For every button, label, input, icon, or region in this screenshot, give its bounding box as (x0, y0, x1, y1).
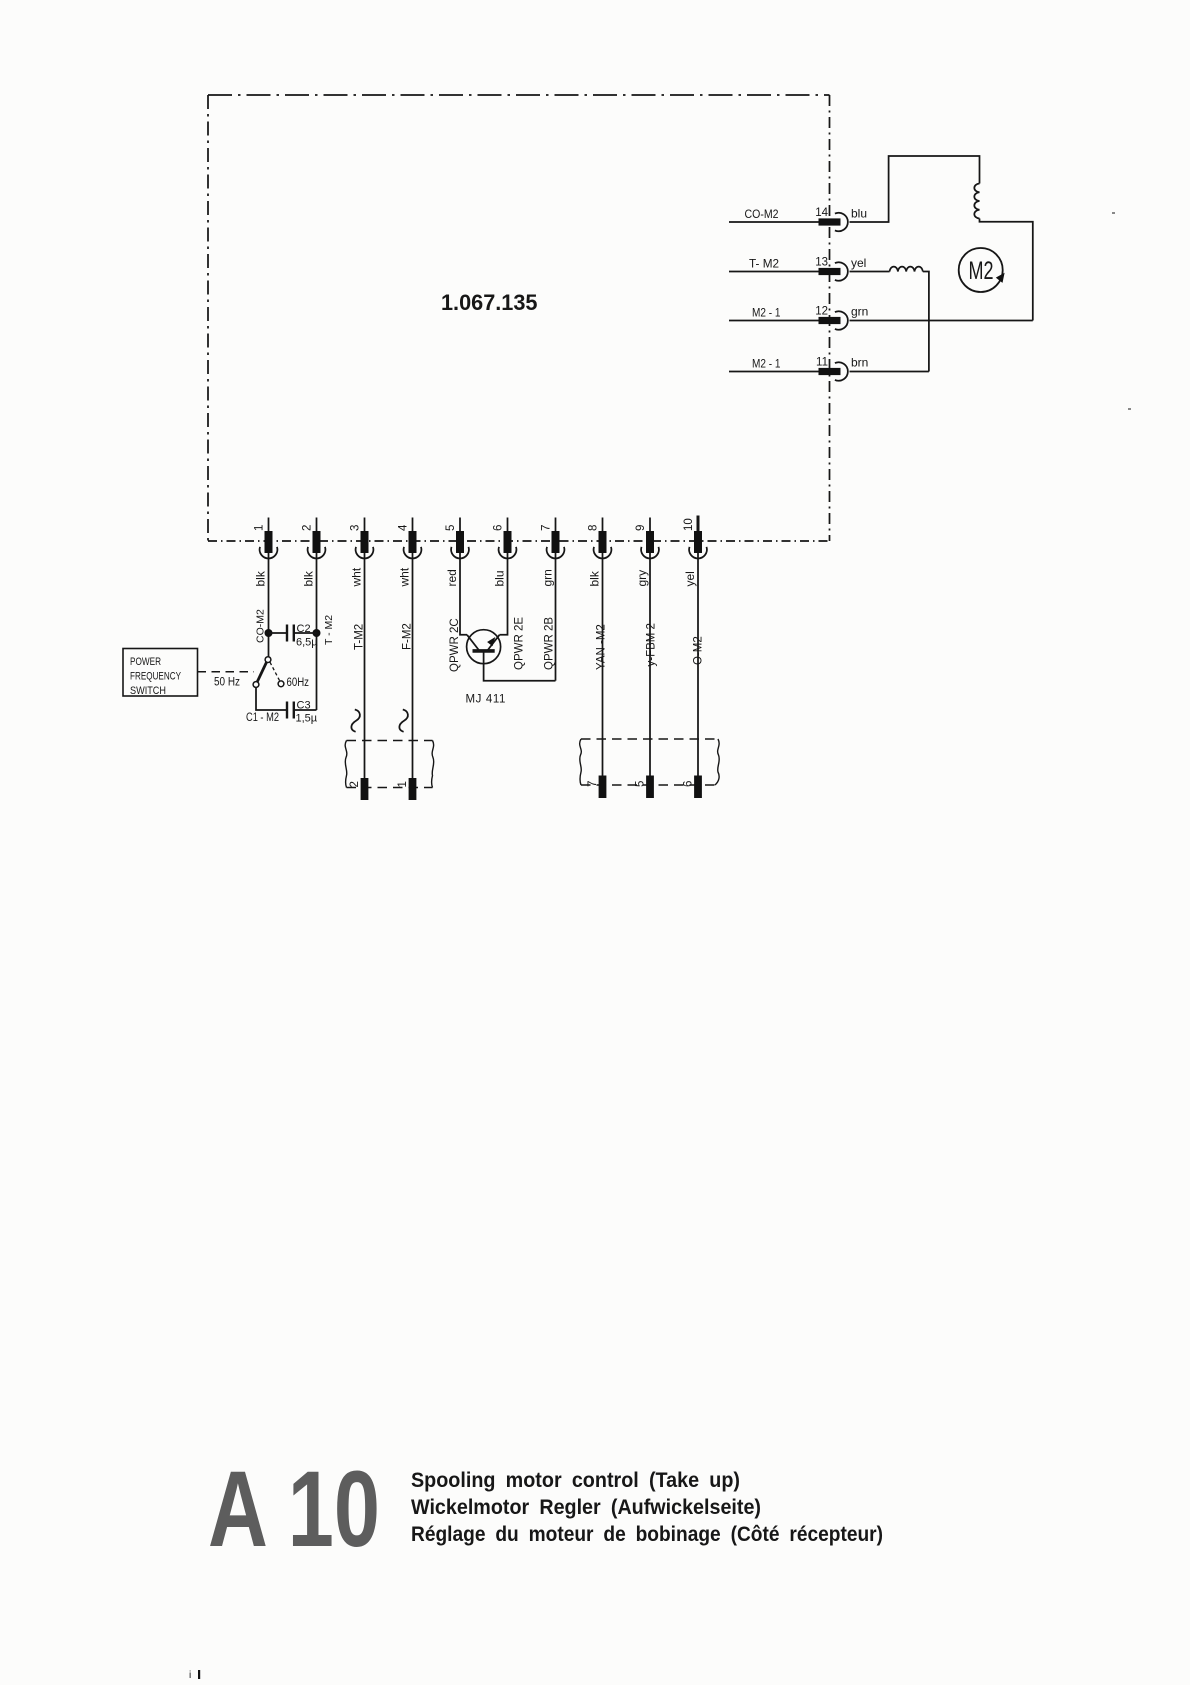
wire pin3 down to connector P1 pin2 (364, 553, 366, 778)
wire pin5 down to transistor Q1 collector (460, 553, 467, 635)
switch S1 lever (50Hz position) (257, 662, 266, 682)
wire T-M2 to pin 13 (729, 271, 820, 273)
scan speck right (1128, 408, 1131, 410)
svg-text:CO-M2: CO-M2 (255, 609, 267, 643)
pin 1 wire stub (268, 518, 270, 532)
svg-text:MJ 411: MJ 411 (466, 694, 506, 706)
svg-text:4: 4 (398, 524, 410, 531)
wire blu from pin 14 to motor winding L1 (850, 156, 980, 222)
wire S1 to C3 (256, 687, 287, 710)
svg-text:C1 - M2: C1 - M2 (246, 712, 279, 724)
svg-text:C2: C2 (297, 623, 311, 635)
connector J2 pin 6 group (493, 518, 526, 671)
svg-text:blk: blk (302, 570, 316, 586)
pin 12 socket hook (835, 311, 848, 329)
pin 3 wire stub (364, 518, 366, 532)
pin 5 contact bar (456, 531, 464, 553)
pin 13 contact bar (819, 268, 841, 275)
pin 1 contact bar (265, 531, 273, 553)
scan speck top right (1112, 212, 1115, 214)
svg-text:CO-M2: CO-M2 (745, 207, 779, 221)
svg-text:brn: brn (851, 356, 868, 370)
transistor Q1 base bar (473, 649, 495, 653)
connector J2 pin 8 group (588, 518, 612, 671)
connector P1 pin 1 bar (409, 778, 417, 800)
connector J2 pin 4 group (398, 518, 422, 651)
connector J1 pin 11 group (729, 356, 868, 381)
svg-text:1.067.135: 1.067.135 (441, 290, 538, 315)
svg-text:7: 7 (587, 781, 599, 787)
transistor Q1 base lead (484, 651, 556, 681)
switch S1 common contact (265, 657, 271, 663)
wire M2-1 to pin 12 (729, 320, 820, 322)
connector P1 torn right edge (432, 741, 434, 788)
svg-text:Wickelmotor Regler (Aufwickels: Wickelmotor Regler (Aufwickelseite) (411, 1496, 761, 1519)
break squiggle on wire 4 (399, 710, 408, 732)
pin 10 wire stub (697, 516, 700, 532)
svg-text:yel: yel (683, 571, 697, 586)
svg-text:50 Hz: 50 Hz (214, 677, 240, 689)
svg-text:grn: grn (541, 569, 555, 586)
svg-text:QPWR 2B: QPWR 2B (544, 617, 556, 670)
svg-text:yel: yel (851, 256, 866, 270)
svg-text:2: 2 (349, 781, 361, 787)
svg-text:11: 11 (816, 357, 828, 369)
wire pin6 down to transistor Q1 emitter (500, 553, 508, 635)
svg-text:14: 14 (815, 207, 828, 219)
svg-text:A 10: A 10 (208, 1448, 380, 1569)
capacitor C2 wire left (269, 632, 288, 634)
transistor Q1 collector arm (467, 635, 479, 650)
pin 10 socket hook (689, 547, 707, 559)
svg-text:gry: gry (635, 570, 649, 587)
connector J1 pin 14 group (729, 207, 867, 232)
transistor Q1 emitter arrow (487, 637, 495, 646)
wire brn to pin 11 (850, 371, 929, 373)
svg-text:3: 3 (350, 525, 362, 531)
module A10 board outline left edge (207, 95, 209, 541)
svg-text:12: 12 (815, 306, 828, 318)
svg-text:M2: M2 (969, 257, 994, 285)
pin 2 contact bar (313, 531, 321, 553)
svg-text:6: 6 (493, 525, 505, 531)
connector P1 dashed outline top (347, 740, 433, 742)
connector J2 pin 10 group (683, 516, 707, 666)
svg-text:2: 2 (302, 525, 314, 531)
capacitor C2 plates (286, 625, 288, 642)
svg-text:1: 1 (254, 525, 266, 531)
switch S1 50Hz contact (253, 682, 259, 688)
power frequency switch box (123, 649, 198, 697)
svg-text:8: 8 (588, 525, 600, 531)
svg-text:9: 9 (635, 525, 647, 531)
pin 8 wire stub (602, 518, 604, 532)
connector P2 dashed outline bottom (581, 784, 718, 786)
pin 3 contact bar (361, 531, 369, 553)
wire pin2 down to C3 (316, 553, 318, 710)
svg-text:QPWR 2E: QPWR 2E (514, 617, 526, 670)
svg-text:1,5µ: 1,5µ (296, 713, 318, 725)
wire pin10 down to connector P2 pin6 (697, 553, 699, 776)
pin 11 contact bar (819, 368, 841, 375)
svg-text:SWITCH: SWITCH (130, 685, 166, 697)
capacitor C3 wire right (294, 709, 317, 711)
svg-text:T- M2: T- M2 (749, 257, 779, 271)
svg-text:1: 1 (397, 781, 409, 787)
svg-text:red: red (445, 569, 459, 586)
capacitor C2 wire right (294, 632, 317, 634)
pin 9 socket hook (641, 547, 659, 559)
connector P2 pin 7 bar (599, 776, 607, 799)
svg-text:5: 5 (445, 525, 457, 531)
pin 4 socket hook (404, 547, 422, 559)
svg-text:M2 - 1: M2 - 1 (752, 306, 781, 320)
switch S1 alternate position dashed (270, 662, 280, 680)
svg-text:grn: grn (851, 305, 868, 319)
svg-text:7: 7 (541, 525, 553, 531)
pin 8 contact bar (599, 531, 607, 553)
module A10 board outline bottom edge (208, 540, 830, 542)
pin 5 wire stub (459, 518, 461, 532)
svg-text:POWER: POWER (130, 656, 161, 668)
pin 6 wire stub (507, 518, 509, 532)
pin 2 wire stub (316, 518, 318, 532)
transistor Q1 emitter arm (488, 635, 500, 650)
wire grn from motor frame to pin 12 (850, 320, 1033, 322)
pin 6 socket hook (499, 547, 517, 559)
pin 13 socket hook (835, 262, 848, 280)
dashed control link from switch box to S1 (198, 671, 255, 673)
pin 8 socket hook (594, 547, 612, 559)
svg-text:13: 13 (815, 257, 828, 269)
pin 4 contact bar (409, 531, 417, 553)
connector J2 pin 1 group (254, 518, 278, 587)
pin 7 contact bar (552, 531, 560, 553)
connector P2 torn left edge (580, 739, 582, 785)
node T-M2 junction dot (313, 629, 321, 637)
pin 14 contact bar (819, 218, 841, 225)
pin 6 contact bar (504, 531, 512, 553)
module A10 board outline top edge (208, 94, 830, 96)
connector J1 pin 12 group (729, 305, 868, 330)
wire L1 to motor frame right side (980, 219, 1033, 321)
pin 4 wire stub (412, 518, 414, 532)
connector P2 torn right edge (715, 739, 719, 785)
svg-text:blk: blk (588, 570, 602, 586)
wire pin1 down to switch S1 (268, 553, 270, 657)
svg-text:FREQUENCY: FREQUENCY (130, 671, 181, 683)
wire yel from pin 13 to inductor L2 (850, 271, 890, 273)
pin 14 socket hook (835, 213, 848, 231)
break squiggle on wire 3 (351, 710, 360, 732)
connector J2 pin 5 group (445, 518, 469, 673)
pin 9 contact bar (646, 531, 654, 553)
svg-text:T - M2: T - M2 (323, 615, 335, 645)
pin 7 wire stub (555, 518, 557, 532)
svg-text:i: i (189, 1670, 191, 1681)
wire L2 down to brn node (923, 272, 929, 372)
wire M2-1 to pin 11 (729, 371, 820, 373)
connector J2 pin 2 group (302, 518, 326, 587)
wire pin4 down to connector P1 pin1 (412, 553, 414, 778)
connector P2 pin 5 bar (646, 776, 654, 799)
pin 12 contact bar (819, 317, 841, 324)
pin 10 contact bar (694, 531, 702, 553)
pin 11 socket hook (835, 362, 848, 380)
transistor Q1 MJ411 circle (467, 630, 501, 664)
svg-text:10: 10 (683, 518, 695, 531)
connector P1 pin 2 bar (361, 778, 369, 800)
svg-text:wht: wht (398, 567, 412, 587)
svg-text:6: 6 (683, 781, 695, 787)
svg-text:y-FBM 2: y-FBM 2 (646, 623, 658, 666)
wire pin9 down to connector P2 pin5 (649, 553, 651, 776)
svg-text:5: 5 (635, 781, 647, 787)
capacitor C3 plates (286, 702, 288, 719)
svg-text:C3: C3 (297, 700, 311, 712)
svg-text:blk: blk (254, 570, 268, 586)
svg-text:YAN -M2: YAN -M2 (596, 624, 608, 670)
connector J2 pin 7 group (541, 518, 565, 671)
module A10 board outline right edge (829, 95, 831, 541)
connector J1 pin 13 group (729, 256, 866, 281)
svg-text:blu: blu (493, 570, 507, 586)
connector P2 pin 6 bar (694, 776, 702, 799)
motor M2 circle symbol (959, 248, 1003, 292)
connector J2 pin 9 group (635, 518, 659, 667)
connector P2 dashed outline top (581, 738, 718, 740)
switch S1 60Hz contact (278, 681, 284, 687)
pin 3 socket hook (356, 547, 374, 559)
connector P1 torn left edge (345, 741, 347, 788)
pin 1 socket hook (260, 547, 278, 559)
motor M2 rotation arrow (996, 273, 1005, 283)
pin 7 socket hook (547, 547, 565, 559)
inductor L1 motor winding (vertical) (974, 184, 979, 219)
connector P1 dashed outline bottom (347, 787, 433, 789)
svg-text:M2 - 1: M2 - 1 (752, 357, 781, 371)
svg-text:Spooling motor control (Take u: Spooling motor control (Take up) (411, 1469, 740, 1492)
svg-text:6,5µ: 6,5µ (296, 637, 318, 649)
pin 5 socket hook (451, 547, 469, 559)
pin 9 wire stub (649, 518, 651, 532)
node CO-M2 junction dot (265, 629, 273, 637)
svg-text:60Hz: 60Hz (287, 677, 310, 689)
pin 2 socket hook (308, 547, 326, 559)
wire pin8 down to connector P2 pin7 (602, 553, 604, 776)
svg-text:blu: blu (851, 207, 867, 221)
wire pin7 down to transistor Q1 base (555, 553, 557, 681)
svg-text:wht: wht (350, 567, 364, 587)
wire CO-M2 to pin 14 (729, 221, 820, 223)
connector J2 pin 3 group (350, 518, 374, 651)
inductor L2 motor winding (horizontal) (890, 267, 923, 272)
svg-text:Réglage du moteur de bobinage: Réglage du moteur de bobinage (Côté réce… (411, 1523, 883, 1546)
